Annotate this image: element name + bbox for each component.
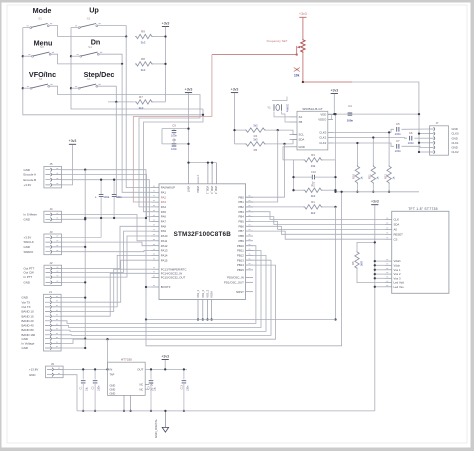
svg-text:HT7330: HT7330	[121, 358, 132, 362]
junction	[374, 264, 376, 266]
svg-text:GND: GND	[110, 388, 116, 392]
wire	[356, 184, 358, 192]
svg-text:100n: 100n	[186, 385, 189, 391]
junction	[374, 241, 376, 243]
svg-text:R5: R5	[351, 261, 355, 265]
junction	[84, 218, 86, 220]
wire ladder left	[293, 160, 295, 190]
svg-text:R1: R1	[311, 200, 315, 204]
pin PA6	[152, 216, 160, 218]
junction	[374, 273, 376, 275]
svg-text:GND: GND	[110, 383, 116, 387]
svg-text:R4: R4	[254, 134, 258, 138]
wire CLK0	[333, 129, 394, 132]
junction	[334, 191, 336, 193]
svg-text:Dn: Dn	[91, 38, 101, 47]
svg-text:Var TX: Var TX	[22, 300, 31, 304]
wire in voltage	[61, 265, 275, 343]
junction	[113, 179, 115, 181]
wire R8 right	[153, 63, 166, 65]
svg-text:J5: J5	[49, 162, 53, 166]
svg-text:S6: S6	[87, 77, 91, 81]
wire pullup feed2	[235, 143, 245, 145]
svg-text:VSS_2: VSS_2	[202, 289, 205, 297]
pin VSS_2	[202, 300, 204, 320]
wire S2 right	[97, 26, 126, 37]
svg-text:PB7: PB7	[239, 229, 245, 233]
pin PB5	[246, 220, 254, 222]
pin Vdd/x	[385, 260, 392, 262]
svg-text:S3: S3	[40, 45, 44, 49]
svg-text:3k3: 3k3	[141, 41, 146, 45]
wire ptt gnd	[61, 281, 85, 283]
svg-text:PB8: PB8	[239, 234, 245, 238]
svg-text:R6: R6	[254, 148, 258, 152]
svg-text:GND: GND	[22, 346, 28, 350]
wire pot wiper	[212, 46, 297, 55]
svg-text:+3v3: +3v3	[330, 88, 338, 92]
svg-text:R3: R3	[311, 153, 315, 157]
wire	[402, 128, 430, 130]
wire gnd stub	[419, 142, 430, 144]
wire mid loop	[146, 192, 342, 346]
svg-text:56R: 56R	[359, 261, 363, 266]
svg-text:10u: 10u	[86, 386, 89, 391]
junction	[145, 318, 147, 320]
junction	[115, 101, 117, 103]
wire SDA to PB0	[246, 144, 285, 197]
svg-text:NC: NC	[139, 382, 143, 386]
svg-text:100n: 100n	[171, 147, 177, 151]
wire CS	[246, 231, 386, 239]
ic U3 HT7330	[108, 362, 146, 395]
svg-text:PB14: PB14	[237, 263, 244, 267]
svg-text:PA13: PA13	[161, 249, 168, 253]
wire tft stub	[375, 260, 385, 262]
resistor R8	[135, 62, 153, 66]
svg-text:+: +	[95, 196, 97, 200]
junction	[277, 129, 279, 131]
svg-text:Out TX: Out TX	[22, 305, 31, 309]
pin Led Vss	[385, 286, 392, 288]
svg-text:PB13: PB13	[237, 258, 244, 262]
wire R7 node	[108, 101, 135, 103]
junction	[22, 55, 24, 57]
wire swd gnd	[61, 246, 85, 248]
svg-text:R8: R8	[141, 57, 145, 61]
svg-text:+3v3: +3v3	[185, 87, 193, 91]
svg-text:GND: GND	[452, 146, 458, 150]
wire XA	[274, 112, 290, 117]
svg-text:+13.8V: +13.8V	[29, 368, 38, 372]
svg-text:PA9: PA9	[161, 229, 167, 233]
svg-text:GND: GND	[299, 145, 305, 149]
svg-text:PB1: PB1	[239, 200, 245, 204]
pin Vss 3	[385, 277, 392, 279]
pin PC15/OSC32_OUT	[152, 276, 160, 278]
junction	[374, 286, 376, 288]
pin PC13/TAMPER/RTC	[152, 268, 160, 270]
pin BOOT0	[152, 286, 160, 288]
wire VDDO join	[328, 114, 332, 119]
connector J5 encoder	[44, 166, 62, 188]
connector J7 clock outputs	[430, 126, 449, 155]
wire long vertical gnd	[335, 114, 337, 160]
wire in ptt	[61, 236, 151, 277]
svg-text:GND: GND	[24, 168, 30, 172]
wire S3 left	[23, 55, 32, 57]
wire band gnd2	[61, 338, 85, 340]
junction	[187, 127, 189, 129]
junction	[84, 281, 86, 283]
wire S2 left	[71, 27, 79, 29]
junction	[334, 318, 336, 320]
svg-text:100n: 100n	[395, 149, 402, 153]
wire BOOT0 gnd	[146, 287, 152, 320]
svg-text:GND: GND	[29, 373, 35, 377]
pin PA0/WKUP	[152, 187, 160, 189]
wire band160	[61, 260, 271, 335]
svg-text:J3: J3	[49, 230, 53, 234]
capacitor C11	[100, 180, 102, 195]
pin PA5	[152, 211, 160, 213]
wire ladder down	[335, 207, 337, 320]
wire	[294, 176, 313, 178]
wire R9 right	[153, 36, 166, 38]
junction	[22, 87, 24, 89]
junction	[418, 142, 420, 144]
svg-text:PA1: PA1	[161, 190, 167, 194]
svg-text:VSS_3: VSS_3	[207, 289, 210, 297]
wire tft vdd bus	[374, 205, 376, 411]
pin PB3	[246, 211, 254, 213]
junction	[164, 368, 166, 370]
svg-text:PA7: PA7	[161, 220, 167, 224]
wire band10	[61, 269, 151, 311]
wire tft stub	[375, 269, 385, 271]
junction	[292, 189, 294, 191]
wire	[173, 138, 175, 144]
svg-text:SDA: SDA	[299, 138, 305, 142]
connector J3 swd	[44, 234, 62, 255]
svg-text:S4: S4	[88, 45, 92, 49]
junction	[210, 318, 212, 320]
svg-text:VDD_1: VDD_1	[206, 186, 209, 195]
svg-text:C6: C6	[409, 131, 413, 135]
pin VDDA	[197, 177, 199, 184]
wire Si GND	[283, 147, 294, 160]
wire pot top	[302, 18, 304, 39]
wire encode A	[61, 175, 151, 217]
svg-text:PA8: PA8	[161, 224, 167, 228]
svg-text:CLK0: CLK0	[319, 131, 326, 135]
svg-text:C5: C5	[396, 122, 400, 126]
wire R4 to SCL	[266, 130, 297, 134]
wire VDD rail si	[328, 113, 419, 115]
svg-text:VDDO: VDDO	[318, 118, 327, 122]
wire band15	[61, 273, 151, 316]
junction	[106, 368, 108, 370]
wire reg out	[145, 368, 187, 370]
svg-text:GND: GND	[110, 392, 116, 396]
svg-text:A0: A0	[394, 228, 398, 232]
svg-text:PB10: PB10	[237, 244, 244, 248]
svg-text:XA: XA	[299, 115, 303, 119]
svg-text:OUT: OUT	[137, 368, 143, 372]
pin CLK	[385, 219, 392, 221]
pin PD1/OSC_OUT	[246, 281, 254, 283]
pin PA12	[152, 245, 160, 247]
wire	[414, 137, 429, 139]
wire pot bottom gray	[352, 82, 419, 114]
svg-text:Encode A: Encode A	[24, 173, 36, 177]
wire CLK1	[333, 137, 407, 140]
svg-text:R9: R9	[141, 30, 145, 34]
resistor R5	[355, 251, 359, 270]
pin RESET	[385, 233, 392, 235]
wire wiper to PA3	[133, 55, 212, 117]
junction	[183, 368, 185, 370]
svg-text:PB3: PB3	[239, 210, 245, 214]
svg-text:10k: 10k	[294, 74, 300, 78]
junction	[70, 87, 72, 89]
wire gnd rail	[77, 410, 375, 412]
svg-text:NRST: NRST	[236, 290, 244, 294]
svg-text:J7: J7	[435, 121, 438, 125]
capacitor C12	[113, 180, 115, 195]
svg-text:R10: R10	[352, 174, 356, 179]
svg-text:NC: NC	[139, 387, 143, 391]
wire tft stub	[375, 286, 385, 288]
junction	[333, 113, 335, 115]
svg-text:Mode: Mode	[33, 6, 52, 15]
junction	[106, 338, 108, 340]
svg-text:GND: GND	[24, 245, 30, 249]
junction	[84, 169, 86, 171]
wire bus to PA2	[116, 102, 151, 197]
svg-text:C13: C13	[180, 384, 183, 389]
wire +3v3 bus	[165, 27, 167, 102]
pin PA3	[152, 201, 160, 203]
svg-text:+3v3: +3v3	[69, 139, 77, 143]
svg-text:+3.3V: +3.3V	[24, 183, 32, 187]
wire RESET	[246, 226, 386, 234]
svg-text:C9: C9	[172, 123, 176, 127]
pin NRST	[246, 291, 254, 293]
wire gnd bus right	[418, 114, 420, 152]
wire S6 left	[71, 87, 79, 89]
wire tft stub	[375, 277, 385, 279]
pin VSS_3	[207, 300, 209, 320]
pin Led Vdd	[385, 282, 392, 284]
svg-text:BAND 10: BAND 10	[22, 310, 34, 314]
pin VSSA	[211, 300, 213, 320]
svg-text:IN: IN	[110, 368, 113, 372]
svg-text:GND: GND	[24, 281, 30, 285]
junction	[197, 318, 199, 320]
svg-text:PA2: PA2	[161, 195, 167, 199]
svg-text:3k3: 3k3	[311, 194, 316, 198]
junction	[211, 161, 213, 163]
pin PA4	[152, 206, 160, 208]
svg-text:3k3: 3k3	[141, 68, 146, 72]
wire	[164, 360, 166, 370]
pin PA2	[152, 196, 160, 198]
svg-text:Frequency SET: Frequency SET	[267, 39, 288, 43]
svg-text:In PTT: In PTT	[24, 275, 33, 279]
svg-text:J1: J1	[49, 290, 53, 294]
svg-text:VBAT: VBAT	[186, 186, 189, 193]
pin PB14	[246, 264, 254, 266]
wire pullup feed	[235, 129, 245, 131]
junction	[418, 113, 420, 115]
svg-text:100n: 100n	[347, 119, 354, 123]
svg-text:PA6: PA6	[161, 215, 167, 219]
wire band20	[61, 246, 256, 324]
svg-text:R2: R2	[311, 183, 315, 187]
pin PB10	[246, 245, 254, 247]
pin PA1	[152, 191, 160, 193]
wire	[61, 218, 85, 220]
wire pwr gnd	[63, 375, 77, 411]
svg-text:C10: C10	[311, 170, 316, 174]
svg-text:PB5: PB5	[239, 220, 245, 224]
junction	[84, 217, 86, 219]
svg-text:3k3: 3k3	[139, 106, 144, 110]
svg-text:PB2: PB2	[239, 205, 245, 209]
wire +3v3 si down	[333, 94, 335, 114]
connector J4 s-meter	[44, 211, 62, 222]
svg-text:In Voltage: In Voltage	[22, 342, 35, 346]
wire band gnd1	[61, 297, 85, 299]
svg-text:Up: Up	[89, 6, 99, 15]
pin PB1	[246, 201, 254, 203]
svg-text:R7: R7	[139, 95, 143, 99]
svg-text:PA0/WKUP: PA0/WKUP	[161, 186, 175, 190]
resistor R12	[387, 165, 391, 184]
wire to PA3	[133, 116, 151, 202]
pin PA8	[152, 225, 160, 227]
wire R1 right	[323, 206, 336, 208]
svg-text:+3v3: +3v3	[161, 354, 169, 358]
wire XB	[282, 112, 290, 123]
pin PA7	[152, 220, 160, 222]
svg-text:3k3: 3k3	[253, 124, 258, 128]
wire bus S2/S4/S6 left	[71, 28, 203, 109]
svg-text:PA14: PA14	[161, 254, 168, 258]
svg-text:BAND 40: BAND 40	[22, 324, 34, 328]
pin PB11	[246, 250, 254, 252]
wire	[402, 146, 430, 147]
junction	[334, 206, 336, 208]
wire CLK2	[333, 143, 394, 146]
svg-text:PA12: PA12	[161, 244, 168, 248]
wire	[372, 184, 374, 192]
pin SDA	[385, 223, 392, 225]
svg-text:VDDA: VDDA	[196, 186, 199, 193]
wire encode B	[61, 180, 151, 222]
svg-text:C4: C4	[348, 104, 352, 108]
wire +3v3 down	[188, 93, 190, 163]
svg-text:GND: GND	[452, 136, 458, 140]
svg-text:Vddx: Vddx	[394, 263, 401, 267]
wire gnd stub	[419, 133, 430, 135]
svg-text:10u: 10u	[154, 386, 157, 391]
junction	[283, 143, 285, 145]
resistor R10	[355, 165, 359, 184]
svg-text:PB11: PB11	[237, 249, 244, 253]
pin Vss 2	[385, 273, 392, 275]
svg-text:BAND 15: BAND 15	[22, 314, 34, 318]
connector J1 band	[44, 294, 62, 351]
junction	[207, 161, 209, 163]
junction	[82, 368, 84, 370]
junction	[418, 132, 420, 134]
junction	[84, 246, 86, 248]
svg-text:+: +	[108, 196, 110, 200]
pin PB2	[246, 206, 254, 208]
wire R5 top	[357, 242, 375, 250]
wire 13v8	[63, 368, 107, 370]
wire out ptt	[61, 226, 151, 268]
svg-text:PD0/OSC_IN: PD0/OSC_IN	[227, 276, 244, 280]
svg-text:PA5: PA5	[161, 210, 167, 214]
junction	[292, 176, 294, 178]
wire VDD rail	[189, 162, 217, 164]
connector J6 power	[46, 366, 64, 378]
svg-text:CLK1: CLK1	[319, 136, 326, 140]
svg-text:BOOT0: BOOT0	[161, 285, 171, 289]
wire	[388, 184, 390, 192]
pin PC14/OSC32_IN	[152, 272, 160, 274]
wire gnd stub	[419, 151, 430, 153]
junction	[233, 129, 235, 131]
wire tft stub	[375, 273, 385, 275]
svg-text:3k3: 3k3	[311, 211, 316, 215]
svg-text:PD1/OSC_OUT: PD1/OSC_OUT	[224, 280, 244, 284]
svg-text:VDD: VDD	[320, 113, 326, 117]
junction	[374, 269, 376, 271]
svg-text:CS: CS	[394, 237, 398, 241]
wire	[61, 215, 151, 241]
capacitor C1	[82, 369, 84, 379]
wire R1 left to PB2	[246, 206, 304, 208]
junction	[70, 55, 72, 57]
junction	[302, 81, 304, 83]
wire out cw	[61, 231, 151, 272]
svg-text:CLK1: CLK1	[452, 141, 459, 145]
pin PB9	[246, 240, 254, 242]
junction	[372, 191, 374, 193]
wire R7 right	[153, 101, 166, 103]
svg-text:RESET: RESET	[394, 232, 404, 236]
potentiometer RV1	[301, 39, 305, 54]
junction	[164, 63, 166, 65]
pin PA9	[152, 230, 160, 232]
junction	[374, 260, 376, 262]
pin PB15	[246, 269, 254, 271]
pin VDD_3	[215, 163, 217, 184]
junction	[121, 63, 123, 65]
svg-text:PB15: PB15	[237, 268, 244, 272]
wire S5 right	[49, 86, 200, 207]
wire S5 left	[23, 87, 31, 89]
wire SCL to PB1	[246, 130, 278, 202]
svg-text:PB4: PB4	[239, 215, 245, 219]
svg-text:100n: 100n	[408, 141, 415, 145]
wire	[61, 145, 72, 185]
pin PD0/OSC_IN	[246, 276, 254, 278]
